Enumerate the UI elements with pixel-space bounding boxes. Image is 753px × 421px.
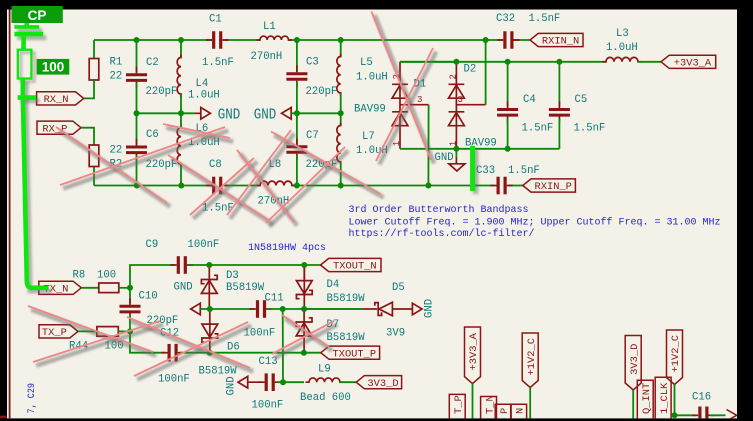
wire +3V3_A wire (472, 384, 474, 419)
resistor R8 (99, 283, 119, 293)
hierarchical label P cut (495, 404, 511, 418)
wire R1 bottom lead (84, 80, 94, 98)
svg-text:C4: C4 (523, 94, 536, 106)
wire C10 top lead (129, 288, 131, 304)
svg-text:1: 1 (448, 141, 458, 146)
svg-text:22: 22 (110, 144, 123, 156)
ground GND5 (412, 303, 422, 315)
svg-text:Lower Cutoff Freq. = 1.900 MHz: Lower Cutoff Freq. = 1.900 MHz; Upper Cu… (349, 216, 721, 228)
capacitor C1 (214, 31, 221, 49)
node J20 (127, 285, 133, 291)
wire C9 wire (130, 265, 175, 288)
wire L4 top lead (180, 40, 182, 58)
svg-text:N: N (514, 408, 526, 414)
node J9 (338, 110, 344, 116)
svg-text:3: 3 (458, 95, 463, 105)
svg-text:BAV99: BAV99 (354, 103, 386, 115)
DNP cross over C12/D6 b (134, 322, 248, 376)
svg-text:D4: D4 (327, 279, 340, 291)
wire top rail b (224, 39, 260, 41)
capacitor C16 (700, 407, 707, 421)
diode D4 (296, 265, 312, 299)
svg-text:RXIN_N: RXIN_N (542, 36, 579, 48)
DNP cross over C12/D6 (127, 317, 250, 368)
svg-text:Q_INT: Q_INT (641, 383, 653, 414)
node J11 (178, 183, 184, 189)
node J1 (134, 37, 140, 43)
svg-text:GND: GND (435, 152, 454, 164)
node J26 (127, 328, 133, 334)
svg-text:Bead 600: Bead 600 (300, 392, 351, 404)
hierarchical label 1_CLK cut (655, 377, 671, 418)
wire 3v3d vertical (282, 309, 284, 382)
hierarchical label 3V3_D vert (625, 336, 641, 391)
node J7 (178, 110, 184, 116)
D4 top lead (303, 265, 305, 281)
diode D1 upper (392, 84, 408, 112)
svg-text:1.0uH: 1.0uH (188, 89, 220, 101)
svg-text:B5819W: B5819W (327, 332, 366, 344)
hierarchical label +3V3_A (661, 55, 716, 68)
inductor L3 (603, 57, 642, 61)
node J30 (672, 412, 678, 418)
hierarchical label 3V3_D (356, 376, 401, 389)
svg-text:1N5819HW 4pcs: 1N5819HW 4pcs (248, 243, 326, 254)
wire bottom rail c (292, 185, 494, 187)
capacitor C12 (169, 344, 176, 362)
svg-text:1.5nF: 1.5nF (508, 165, 540, 177)
wire C4 top lead (507, 62, 509, 107)
capacitor C10 (120, 306, 141, 312)
node J23 (207, 306, 213, 312)
svg-text:C6: C6 (146, 129, 159, 141)
inductor L8 (257, 181, 296, 185)
svg-text:L3: L3 (616, 28, 629, 40)
svg-text:7, C29: 7, C29 (27, 383, 38, 414)
DNP cross over D7 b (272, 321, 334, 354)
DNP cross over L6 (163, 124, 230, 138)
inductor L6 (177, 125, 181, 168)
D2 pin3 stub (456, 104, 485, 106)
hierarchical label Q_INT cut (637, 380, 653, 418)
svg-text:1_CLK: 1_CLK (659, 382, 671, 414)
wire top rail left (93, 40, 95, 59)
wire L9 right wire (340, 381, 356, 383)
svg-text:B5819W: B5819W (327, 293, 366, 305)
node J12 (294, 183, 300, 189)
capacitor C11 (258, 300, 265, 318)
svg-text:3V3_D: 3V3_D (629, 344, 641, 375)
inductor L7 (337, 123, 341, 166)
hierarchical label TXOUT_N (321, 258, 382, 271)
D1 pin2 lead (399, 62, 401, 85)
svg-text:100nF: 100nF (188, 239, 220, 251)
capacitor C32 (505, 31, 512, 49)
wire top rail a (94, 39, 212, 41)
wire c11 rail a (200, 308, 254, 310)
hierarchical label +3V3_A vert (465, 327, 481, 384)
DNP cross over D1 (372, 12, 432, 161)
ground GND2 (282, 108, 292, 120)
svg-text:100: 100 (97, 269, 116, 281)
svg-text:+3V3_A: +3V3_A (468, 332, 480, 370)
svg-text:GND: GND (424, 299, 436, 318)
wire L5 top lead (340, 40, 342, 57)
DNP cross over D7 (282, 315, 329, 347)
svg-text:C1: C1 (209, 13, 222, 25)
wire bottom rail a (94, 185, 212, 187)
ground GND6 (238, 376, 248, 388)
hierarchical label N cut (511, 404, 527, 418)
node J13 (338, 183, 344, 189)
ground GND4 (191, 303, 201, 315)
svg-text:R8: R8 (73, 269, 86, 281)
node J19 (505, 146, 511, 152)
svg-text:L5: L5 (360, 57, 373, 69)
svg-text:3V9: 3V9 (386, 327, 405, 339)
capacitor C2 (126, 75, 147, 81)
wire C4 bottom lead (507, 118, 509, 149)
svg-text:C32: C32 (496, 13, 515, 25)
hierarchical label +1V2_C vert (522, 333, 538, 388)
diode D6 (202, 309, 218, 342)
svg-text:100nF: 100nF (252, 399, 284, 411)
svg-text:C7: C7 (306, 130, 319, 142)
cross shadows (31, 15, 436, 380)
svg-text:+1V2_C: +1V2_C (526, 338, 538, 375)
svg-text:1.5nF: 1.5nF (529, 13, 561, 25)
wire bottom rail b (224, 185, 260, 187)
resistor R2 (89, 145, 99, 167)
svg-text:D5: D5 (392, 282, 405, 294)
highlight shadows (17, 30, 475, 290)
wire TX_P wire (78, 330, 97, 332)
wire 3V3_D wire (632, 390, 634, 419)
node J8 (294, 110, 300, 116)
highlighted wire near C33 (470, 146, 475, 191)
node J2 (178, 37, 184, 43)
wire TX_N wire (81, 287, 99, 289)
svg-text:GND: GND (254, 106, 276, 123)
diode D1 lower (392, 112, 408, 149)
svg-text:C2: C2 (146, 57, 159, 69)
svg-text:C3: C3 (306, 56, 319, 68)
svg-text:RXIN_P: RXIN_P (534, 181, 571, 193)
D5 left lead (363, 308, 377, 310)
svg-text:3rd Order Butterworth Bandpass: 3rd Order Butterworth Bandpass (349, 204, 529, 216)
svg-text:C5: C5 (575, 94, 588, 106)
capacitor C8 (214, 177, 221, 195)
svg-text:L4: L4 (196, 78, 209, 90)
svg-text:L7: L7 (362, 131, 375, 143)
svg-text:L9: L9 (318, 363, 331, 375)
wire gnd rail (400, 148, 559, 150)
wire txoutn rail (209, 264, 320, 266)
node J18 (453, 146, 459, 152)
net name box CP (12, 6, 63, 23)
node J24 (280, 306, 286, 312)
D2 pin2 lead (455, 62, 457, 85)
capacitor C5 (549, 110, 570, 116)
svg-text:1.5nF: 1.5nF (574, 122, 606, 134)
sheet corner mark (0, 416, 7, 419)
wire L4 bottom lead (180, 94, 182, 113)
wire C7 bottom lead (296, 155, 298, 186)
D7 top lead (303, 309, 305, 322)
wire C9 out wire (189, 264, 209, 266)
wire C6 bottom lead (136, 155, 138, 186)
capacitor C4 (497, 110, 518, 116)
node J15 (453, 59, 459, 65)
wire D1-D2 top wire (400, 61, 456, 63)
svg-text:220pF: 220pF (146, 86, 178, 98)
hierarchical label RXIN_N (530, 33, 583, 46)
wire C2 bottom lead (136, 83, 138, 145)
wire L5 bottom lead (340, 93, 342, 113)
svg-text:C10: C10 (139, 290, 158, 302)
node J27 (207, 350, 213, 356)
svg-text:C33: C33 (476, 165, 495, 177)
svg-text:1.5nF: 1.5nF (202, 57, 234, 69)
D4 bottom lead (303, 295, 305, 310)
svg-text:R1: R1 (110, 57, 123, 69)
capacitor C7 (286, 147, 307, 153)
wire 3V3A rail a (400, 61, 606, 63)
wire L6 top lead (180, 113, 182, 127)
svg-text:2: 2 (449, 74, 459, 79)
wire top rail c (289, 39, 503, 41)
node J3 (294, 37, 300, 43)
resistor R1 (89, 59, 99, 81)
diode D2 lower (449, 112, 465, 149)
node J25 (301, 306, 307, 312)
svg-text:22: 22 (110, 71, 123, 83)
node J22 (301, 262, 307, 268)
node J4 (338, 37, 344, 43)
wire top rail d (515, 39, 531, 41)
hierarchical label +1V2_C vert 2 (667, 330, 683, 385)
DNP cross over R44 b (33, 321, 160, 362)
resistor R44 (97, 327, 118, 337)
DNP cross over C6/R2 (56, 127, 167, 203)
svg-text:3V3_D: 3V3_D (367, 378, 398, 390)
wire mid rail a (137, 112, 196, 114)
node J16 (505, 59, 511, 65)
svg-text:T_P: T_P (453, 395, 465, 414)
node J10 (134, 183, 140, 189)
node J29 (280, 379, 286, 385)
wire c12 rail a (130, 331, 166, 352)
svg-text:L1: L1 (263, 21, 276, 33)
svg-text:TXOUT_P: TXOUT_P (332, 348, 376, 360)
capacitor C13 (266, 373, 273, 391)
wire c12 rail b (180, 352, 321, 354)
svg-text:1.0uH: 1.0uH (606, 42, 638, 54)
ground GND1 (201, 108, 211, 120)
wire C3 bottom lead (296, 82, 298, 113)
wire RX_P wire (81, 128, 94, 145)
inductor L1 (257, 36, 293, 40)
svg-text:100nF: 100nF (158, 373, 190, 385)
hierarchical label TX_N (39, 281, 82, 294)
svg-text:B5819W: B5819W (199, 365, 238, 377)
wire +1V2_C wire (529, 388, 531, 419)
svg-text:D3: D3 (226, 270, 239, 282)
hierarchical label T_P cut (449, 394, 465, 418)
D1 pin3 stub (400, 104, 429, 106)
wire D5 wire (304, 308, 363, 310)
diode D5 (375, 302, 413, 316)
svg-text:D6: D6 (227, 341, 240, 353)
svg-text:C16: C16 (692, 391, 711, 403)
svg-text:GND: GND (226, 376, 238, 395)
svg-text:270nH: 270nH (251, 51, 283, 63)
diode D3 (201, 275, 217, 309)
wire GND2 stub (291, 112, 297, 114)
capacitor C33 (498, 177, 505, 195)
hierarchical label TX_P (39, 325, 78, 338)
svg-text:GND: GND (174, 281, 193, 293)
svg-text:TX_P: TX_P (42, 327, 67, 339)
DNP cross over C8 (168, 155, 270, 221)
capacitor C6 (126, 147, 147, 153)
ground GND3 (449, 164, 465, 171)
wire C7 top lead (296, 113, 298, 144)
D3 top lead (208, 265, 210, 280)
svg-text:TXOUT_N: TXOUT_N (333, 261, 377, 273)
svg-text:1.0uH: 1.0uH (356, 71, 388, 83)
wire bottom rail d (509, 185, 523, 187)
inductor L4 (177, 55, 181, 98)
inductor L9 (306, 378, 344, 382)
wire 3V3A rail b (638, 61, 661, 63)
svg-text:220pF: 220pF (306, 86, 338, 98)
wire +1V2_C wire 2 (674, 385, 676, 416)
svg-text:+1V2_C: +1V2_C (670, 335, 682, 372)
highlighted capacitor CP plates (14, 27, 43, 34)
wire C16 left wire (675, 414, 697, 416)
wire L7 bottom lead (340, 162, 342, 186)
svg-text:BAV99: BAV99 (465, 137, 497, 149)
node J28 (301, 350, 307, 356)
svg-text:CP: CP (28, 8, 47, 23)
hierarchical label TXOUT_P (321, 346, 380, 359)
wire R2 bottom lead (93, 167, 95, 186)
wire mid rail b (297, 112, 341, 114)
svg-text:C8: C8 (209, 159, 222, 171)
capacitor C3 (286, 74, 307, 80)
DNP cross over C8 b (190, 158, 254, 215)
D6 bottom lead (209, 338, 211, 353)
wire R44 out wire (118, 330, 130, 332)
svg-text:C13: C13 (259, 356, 278, 368)
svg-text:1: 1 (392, 141, 402, 146)
svg-text:GND: GND (218, 106, 241, 123)
diode D7 (296, 318, 312, 353)
svg-text:P: P (499, 408, 511, 414)
DNP cross over D1 b (376, 48, 433, 161)
wire R8 out wire (119, 287, 130, 289)
highlighted resistor 100 (18, 50, 32, 79)
node J6 (134, 110, 140, 116)
DNP cross over L8 b (227, 130, 291, 215)
GND1 stub (195, 112, 201, 114)
node J5 (483, 37, 489, 43)
svg-text:100: 100 (42, 59, 65, 74)
svg-text:1.5nF: 1.5nF (522, 122, 554, 134)
DNP cross over C6/R2 b (60, 127, 225, 185)
wire C5 top lead (558, 62, 560, 107)
svg-text:B5819W: B5819W (226, 282, 265, 294)
node J17 (556, 59, 562, 65)
wire L6 bottom lead (180, 164, 182, 186)
highlighted wire CP net upper (23, 22, 49, 288)
svg-text:https://rf-tools.com/lc-filter: https://rf-tools.com/lc-filter/ (349, 228, 535, 240)
wire C5 bottom lead (558, 118, 560, 149)
wire C13 right wire (277, 381, 304, 383)
C13 left lead (248, 381, 262, 383)
wire C3 top lead (296, 40, 298, 71)
node J21 (206, 262, 212, 268)
wire D1 pin3 wire (427, 105, 429, 186)
svg-text:3: 3 (417, 95, 422, 105)
svg-text:D2: D2 (464, 64, 477, 76)
wire L7 top lead (340, 113, 342, 125)
svg-text:RX_N: RX_N (44, 94, 69, 106)
DNP cross over L7 b (266, 147, 345, 223)
pin arrow (727, 410, 737, 421)
gnd stub red (455, 157, 457, 164)
DNP cross over L8 (237, 150, 294, 222)
wire c11 rail b (268, 308, 363, 310)
hierarchical label RXIN_P (523, 179, 576, 192)
svg-text:C11: C11 (265, 292, 284, 304)
svg-text:+3V3_A: +3V3_A (674, 58, 712, 70)
wire D2 pin3 wire (485, 40, 487, 105)
value box 100 (37, 59, 70, 75)
hierarchical label RX_N (37, 92, 84, 105)
sheet border line (9, 10, 11, 419)
DNP cross over R44 (28, 306, 153, 352)
wire C16 right wire (710, 414, 726, 416)
diode D2 upper (449, 84, 465, 112)
wire gnd stub green (455, 149, 457, 157)
wire C2 top lead (136, 40, 138, 72)
inductor L5 (337, 54, 341, 97)
wire C10 bottom lead (129, 315, 131, 331)
capacitor C9 (178, 256, 185, 274)
svg-text:C9: C9 (146, 239, 159, 251)
hierarchical label T_N cut (481, 397, 497, 419)
node J14 (425, 183, 431, 189)
hierarchical label RX_P (37, 121, 81, 134)
DNP cross over L7 (271, 132, 381, 195)
highlighted wire RX_N stub (18, 95, 37, 100)
